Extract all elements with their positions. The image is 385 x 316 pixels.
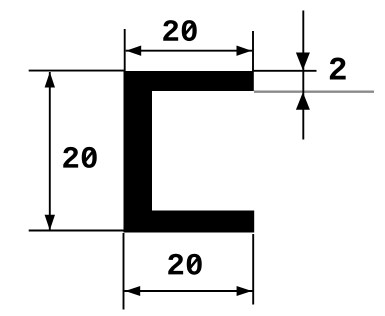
arrowhead top-right	[237, 46, 252, 56]
slash of zero bottom	[188, 257, 199, 270]
dimension line left	[49, 72, 51, 230]
extension line left-bottom	[29, 230, 125, 232]
arrowhead left-top	[45, 72, 55, 88]
label 20 left	[63, 147, 96, 168]
extension line right long gray	[254, 90, 374, 92]
dimension line top	[126, 50, 252, 52]
arrowhead left-bottom	[45, 215, 55, 231]
label 2 right	[330, 57, 346, 79]
dimension line 2 vertical	[302, 11, 304, 140]
extension line bottom-right	[252, 234, 254, 305]
extension line top-left	[124, 29, 126, 71]
extension line left-top	[29, 70, 125, 72]
C-channel profile body	[124, 71, 255, 233]
arrowhead 2-up	[296, 92, 310, 110]
slash of zero left	[83, 151, 94, 164]
dimension line bottom	[125, 290, 253, 292]
arrowhead bottom-right	[237, 286, 252, 296]
arrowhead top-left	[126, 46, 141, 56]
slash of zero top	[183, 24, 194, 37]
label 20 top	[163, 20, 196, 41]
arrowhead 2-down	[296, 53, 310, 71]
extension line bottom-left	[123, 233, 125, 310]
label 20 bottom	[168, 254, 201, 275]
extension line top-right	[252, 31, 254, 71]
arrowhead bottom-left	[125, 286, 140, 296]
extension line right short	[254, 70, 317, 72]
